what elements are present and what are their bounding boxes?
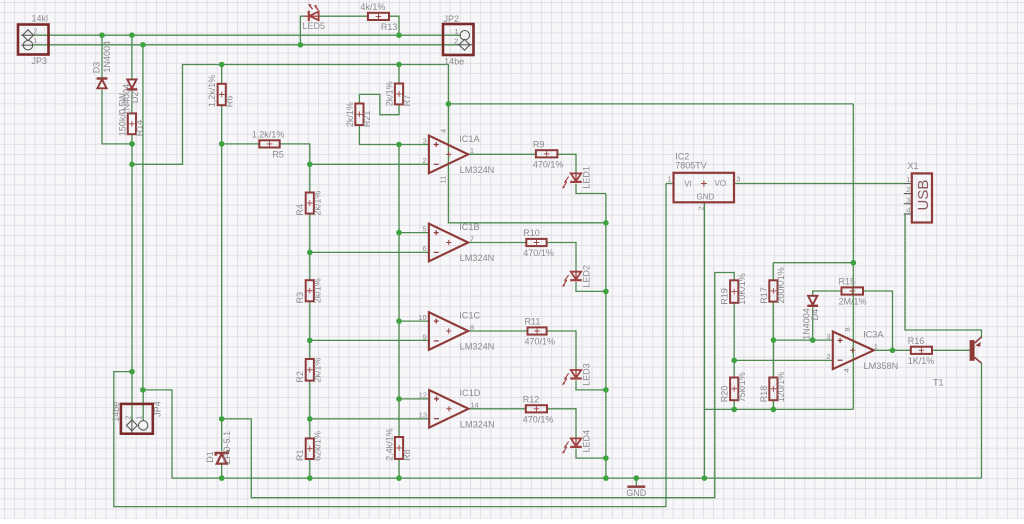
wire R2 top [309, 340, 311, 359]
op-amp IC1A [429, 136, 468, 174]
pin stub X1.1 [904, 183, 912, 185]
junction [219, 141, 225, 147]
wire R12 to LED4 [547, 409, 576, 439]
svg-text:T1: T1 [933, 378, 944, 388]
LED LED3 [562, 369, 582, 385]
svg-text:R14: R14 [135, 120, 145, 137]
wire R3 top [309, 252, 311, 280]
svg-text:2: 2 [826, 352, 830, 361]
wire R17 top [772, 263, 774, 281]
wire LED cathode rail [605, 194, 607, 479]
svg-text:62k/1%: 62k/1% [313, 431, 323, 461]
svg-text:IC1B: IC1B [459, 222, 479, 232]
pin stub X1.3 [904, 203, 912, 205]
svg-text:1: 1 [33, 36, 37, 45]
svg-text:R16: R16 [908, 336, 925, 346]
svg-text:3: 3 [736, 175, 740, 184]
svg-text:4k/1%: 4k/1% [360, 2, 385, 12]
junction [603, 455, 609, 461]
svg-text:R1: R1 [295, 449, 305, 461]
junction [634, 475, 640, 481]
wire R7 to R21 [359, 94, 399, 114]
junction [810, 337, 816, 343]
svg-text:2,4k/1%: 2,4k/1% [384, 428, 394, 461]
svg-text:R3: R3 [295, 292, 305, 304]
pin stub X1.2 [904, 193, 912, 195]
svg-text:JP3: JP3 [32, 56, 48, 66]
svg-text:JP2: JP2 [444, 14, 460, 24]
wire R5 to inverting column [280, 144, 310, 164]
svg-text:7805TV: 7805TV [675, 161, 707, 171]
wire IC3A noninverting input [773, 339, 832, 341]
resistor R14 [128, 113, 136, 134]
wire X1 pin 4 to T1 [905, 214, 982, 338]
wire R8 to ground rail [398, 459, 400, 478]
wire node to JP4 pin 2 [131, 144, 133, 421]
svg-text:1: 1 [874, 342, 878, 351]
junction [129, 369, 135, 375]
junction [396, 62, 402, 68]
pad JP2.1 circle [460, 31, 469, 40]
resistor R12 [526, 405, 547, 412]
svg-text:LM324N: LM324N [460, 419, 495, 429]
wire R11 to LED3 [547, 331, 576, 370]
resistor R21 [355, 104, 363, 126]
connector JP2 [443, 24, 474, 55]
svg-text:4: 4 [906, 206, 910, 215]
wire net VIN+ top [33, 34, 461, 36]
wire R19 to R20 [733, 303, 735, 378]
wire IC1C noninverting input [399, 320, 429, 322]
junction [99, 32, 105, 38]
svg-text:9: 9 [423, 333, 427, 342]
svg-text:LED4: LED4 [582, 430, 592, 453]
junction [307, 475, 313, 481]
svg-text:R7: R7 [402, 95, 412, 107]
svg-text:R4: R4 [295, 204, 305, 216]
svg-text:IC3A: IC3A [863, 330, 884, 340]
wire R17 top row [773, 262, 853, 264]
wire LED1 cathode [576, 184, 606, 194]
svg-text:GND: GND [626, 488, 647, 498]
svg-text:75k/1%: 75k/1% [737, 372, 747, 402]
svg-text:LED5: LED5 [303, 21, 326, 31]
wire divider column [221, 144, 223, 419]
wire R18 top [772, 340, 774, 377]
LED LED2 [562, 271, 582, 287]
wire LED5 to R13 [319, 15, 368, 17]
junction [219, 475, 225, 481]
wire D1 to ground rail [221, 464, 223, 478]
resistor R13 [368, 13, 389, 20]
svg-text:JP4: JP4 [153, 401, 163, 417]
wire net VIN- top [33, 44, 461, 46]
svg-text:2k/1%: 2k/1% [313, 191, 323, 216]
svg-text:14kl: 14kl [32, 14, 49, 24]
svg-text:R17: R17 [759, 287, 769, 304]
wire IC1C output [468, 330, 527, 332]
wire R6 bottom [221, 105, 223, 144]
wire IC3A inverting input [734, 359, 833, 361]
junction [603, 220, 609, 226]
junction [731, 407, 737, 413]
svg-text:R10: R10 [523, 228, 540, 238]
svg-text:IC1A: IC1A [459, 134, 480, 144]
wire IC2 output to X1 [734, 183, 905, 185]
wire supply row [132, 65, 448, 165]
junction [851, 260, 857, 266]
wire right supply column [852, 104, 854, 410]
svg-text:USB: USB [915, 180, 932, 211]
wire R8 top [398, 399, 400, 437]
wire to JP4 pin 1 [142, 45, 144, 390]
svg-text:1: 1 [134, 416, 143, 420]
diode D1 [216, 450, 228, 464]
ground [627, 486, 645, 488]
svg-text:1: 1 [454, 27, 458, 36]
junction [396, 318, 402, 324]
wire LED4 cathode [576, 449, 606, 459]
svg-text:2: 2 [906, 185, 910, 194]
op-amp IC3A [833, 332, 874, 370]
svg-text:LED2: LED2 [582, 265, 592, 288]
wire supply through IC1A [448, 64, 606, 223]
svg-text:10K/1%: 10K/1% [737, 273, 747, 305]
junction [129, 32, 135, 38]
svg-text:LM358N: LM358N [864, 361, 899, 371]
wire to LED5 [300, 16, 305, 45]
resistor R10 [526, 239, 546, 246]
svg-text:2: 2 [423, 156, 427, 165]
junction [140, 387, 146, 393]
pin line JP4.2 [131, 419, 133, 433]
wire to R5 [222, 143, 260, 145]
svg-text:R21: R21 [362, 111, 372, 128]
junction [396, 142, 402, 148]
junction [702, 475, 708, 481]
svg-text:2: 2 [696, 206, 705, 210]
wire R21 to IC1A noninverting input [359, 125, 429, 144]
svg-text:470/1%: 470/1% [523, 414, 554, 424]
junction [307, 162, 313, 168]
junction [396, 396, 402, 402]
svg-text:D4: D4 [810, 309, 820, 321]
svg-text:3: 3 [906, 195, 910, 204]
wire R16 to T1 base [932, 349, 970, 351]
junction [396, 32, 402, 38]
wire R9 to LED1 [557, 154, 576, 173]
resistor R11 [528, 327, 547, 334]
junction [890, 348, 896, 354]
wire node to R19 [222, 273, 735, 498]
resistor R20 [730, 378, 738, 401]
wire R10 to LED2 [547, 243, 576, 272]
svg-text:R12: R12 [523, 394, 540, 404]
svg-text:R11: R11 [525, 317, 541, 327]
junction [771, 337, 777, 343]
svg-text:470/1%: 470/1% [525, 337, 556, 347]
junction [298, 42, 304, 48]
diode D4 [807, 296, 818, 306]
junction [307, 338, 313, 344]
svg-text:LM324N: LM324N [460, 342, 495, 352]
resistor R15 [842, 287, 864, 294]
svg-text:8: 8 [470, 323, 474, 332]
svg-text:R19: R19 [720, 288, 730, 305]
junction [396, 230, 402, 236]
resistor R1 [306, 438, 314, 459]
wire to D3 [101, 35, 103, 78]
junction [129, 141, 135, 147]
svg-text:R8: R8 [402, 449, 412, 461]
svg-text:R5: R5 [272, 149, 284, 159]
resistor R5 [259, 140, 279, 147]
svg-text:R18: R18 [759, 386, 769, 403]
wire JP4 pin 1 stub [142, 390, 144, 421]
wire IC2 ground [703, 202, 705, 478]
junction [771, 407, 777, 413]
wire to D1 [221, 419, 223, 451]
wire reference column [398, 233, 400, 322]
junction [603, 475, 609, 481]
svg-text:14: 14 [470, 401, 478, 410]
svg-text:VI: VI [684, 180, 692, 189]
resistor R18 [769, 378, 777, 401]
svg-text:1,2k/1%: 1,2k/1% [207, 75, 217, 108]
wire R3 bottom [309, 301, 311, 340]
USB connector X1 [912, 173, 932, 222]
junction [446, 101, 452, 107]
wire to D2 [131, 35, 133, 79]
wire lower rail [705, 408, 854, 410]
wire R2 bottom [309, 381, 311, 419]
svg-text:ZPD-5.1: ZPD-5.1 [222, 431, 232, 465]
connector JP4 [121, 404, 153, 434]
wire supply return loop [114, 184, 666, 507]
svg-text:4: 4 [842, 368, 851, 372]
wire IC2 input [666, 183, 674, 185]
wire IC1B inverting input [310, 251, 429, 253]
wire D2 to R14 [131, 91, 133, 114]
wire D3 to node [102, 90, 132, 144]
svg-text:R15: R15 [839, 277, 856, 287]
junction [307, 250, 313, 256]
svg-text:11: 11 [439, 176, 448, 184]
svg-text:1N4004: 1N4004 [802, 308, 812, 340]
pad JP2.2 octagon [459, 39, 470, 50]
svg-text:13: 13 [419, 411, 427, 420]
LED LED1 [562, 172, 582, 188]
pad JP4.1 circle [139, 421, 148, 430]
voltage regulator IC2 [674, 173, 735, 203]
wire IC3A output [874, 349, 911, 351]
wire R4 top [309, 164, 311, 192]
svg-text:1N4004: 1N4004 [102, 41, 112, 73]
wire LED3 cathode [576, 380, 606, 390]
resistor R8 [395, 437, 403, 459]
pin line JP3.1 [21, 44, 33, 46]
wire IC1C inverting input [310, 339, 429, 341]
wire R1 to ground rail [309, 459, 311, 478]
wire LED2 cathode [576, 282, 606, 292]
svg-text:470/1%: 470/1% [533, 159, 564, 169]
wire R20 bottom [733, 400, 735, 409]
wire R13 down [389, 16, 399, 35]
svg-text:D3: D3 [91, 62, 101, 74]
svg-text:LM324N: LM324N [460, 165, 495, 175]
LED LED4 [562, 437, 582, 453]
wire reference column [398, 321, 400, 399]
svg-text:1N4004: 1N4004 [121, 84, 131, 116]
svg-text:1: 1 [667, 175, 671, 184]
svg-text:6: 6 [423, 244, 427, 253]
svg-text:2M/1%: 2M/1% [839, 297, 867, 307]
wire IC1D inverting input [310, 418, 429, 420]
diode D3 [97, 79, 108, 89]
wire IC1D noninverting input [399, 398, 429, 400]
svg-text:LED3: LED3 [582, 363, 592, 386]
svg-text:2: 2 [123, 416, 132, 420]
svg-text:GND: GND [697, 193, 715, 202]
svg-text:1: 1 [470, 146, 474, 155]
svg-text:120/1%: 120/1% [776, 372, 786, 403]
svg-text:8: 8 [843, 327, 852, 331]
junction [129, 162, 135, 168]
wire R4 bottom [309, 214, 311, 253]
svg-text:2k/1%: 2k/1% [313, 278, 323, 303]
wire D4 bottom [812, 307, 814, 340]
connector JP3 [18, 25, 49, 55]
junction [219, 416, 225, 422]
svg-text:R2: R2 [295, 371, 305, 383]
wire IC1B output [468, 242, 526, 244]
svg-text:2: 2 [454, 36, 458, 45]
wire ground stub [635, 478, 637, 486]
junction [731, 358, 737, 364]
svg-text:IC1D: IC1D [460, 388, 481, 398]
pad JP3.2 octagon [23, 30, 34, 41]
transistor T1 [970, 337, 982, 363]
resistor R17 [769, 280, 777, 301]
wire R14 down [131, 134, 133, 144]
wire IC1A output [468, 153, 536, 155]
wire supply to right side [448, 103, 853, 105]
svg-text:2k/1%: 2k/1% [345, 102, 355, 127]
svg-text:VO: VO [715, 179, 727, 188]
resistor R6 [218, 84, 226, 105]
op-amp IC1B [429, 224, 468, 262]
svg-text:4: 4 [439, 129, 448, 133]
resistor R2 [306, 359, 314, 381]
svg-text:1,2k/1%: 1,2k/1% [252, 129, 285, 139]
svg-text:2k/1%: 2k/1% [313, 358, 323, 383]
wire reference column [398, 145, 400, 233]
svg-text:R20: R20 [720, 386, 730, 403]
resistor R16 [911, 347, 932, 354]
wire R17 bottom [772, 302, 774, 341]
svg-text:14be: 14be [444, 57, 464, 67]
svg-text:IC1C: IC1C [459, 310, 480, 320]
resistor R7 [395, 84, 403, 105]
wire R1 top [309, 419, 311, 439]
wire IC1B noninverting input [399, 232, 429, 234]
svg-text:3: 3 [826, 332, 830, 341]
op-amp IC1D [429, 390, 468, 428]
pin line JP2.2 [458, 44, 474, 46]
junction [219, 62, 225, 68]
junction [140, 42, 146, 48]
wire R15 to output node [863, 291, 893, 350]
svg-text:LED1: LED1 [582, 166, 592, 189]
junction [307, 416, 313, 422]
svg-text:470/1%: 470/1% [523, 248, 554, 258]
svg-text:X1: X1 [908, 161, 919, 171]
svg-text:3: 3 [423, 136, 427, 145]
resistor R19 [730, 280, 738, 303]
svg-text:R6: R6 [225, 96, 235, 108]
svg-text:14be: 14be [111, 402, 121, 422]
wire R6 top [221, 65, 223, 84]
op-amp IC1C [429, 312, 468, 350]
wire D4 to R15 [813, 291, 842, 296]
svg-text:R13: R13 [381, 22, 398, 32]
junction [603, 387, 609, 393]
wire ground rail [172, 477, 982, 479]
resistor R9 [536, 150, 558, 157]
svg-text:7: 7 [470, 234, 474, 243]
resistor R3 [306, 280, 314, 301]
svg-text:12: 12 [419, 391, 427, 400]
wire IC1D output [469, 408, 526, 410]
svg-text:R9: R9 [533, 139, 545, 149]
wire R18 bottom [772, 400, 774, 409]
svg-text:D1: D1 [205, 451, 215, 463]
diode D2 [127, 79, 138, 89]
LED LED5 [305, 4, 320, 22]
svg-text:1: 1 [906, 175, 910, 184]
junction [396, 475, 402, 481]
wire IC1A inverting input [310, 163, 429, 165]
svg-text:10: 10 [418, 313, 426, 322]
wire R7 top [398, 65, 400, 84]
svg-text:200K/1%: 200K/1% [776, 267, 786, 304]
svg-text:5: 5 [423, 224, 427, 233]
pad JP3.1 circle [23, 41, 32, 50]
junction [603, 289, 609, 295]
svg-text:2k/1%: 2k/1% [384, 81, 394, 106]
resistor R4 [306, 193, 314, 214]
svg-text:LM324N: LM324N [460, 253, 495, 263]
pin line JP3.2 [21, 34, 36, 36]
pin stub X1.4 [904, 213, 912, 215]
svg-text:2: 2 [33, 27, 37, 36]
svg-text:1K/1%: 1K/1% [908, 356, 935, 366]
wire T1 to ground rail [981, 363, 983, 478]
pad JP4.2 octagon [126, 420, 137, 431]
wire JP4 to ground rail [143, 390, 172, 478]
